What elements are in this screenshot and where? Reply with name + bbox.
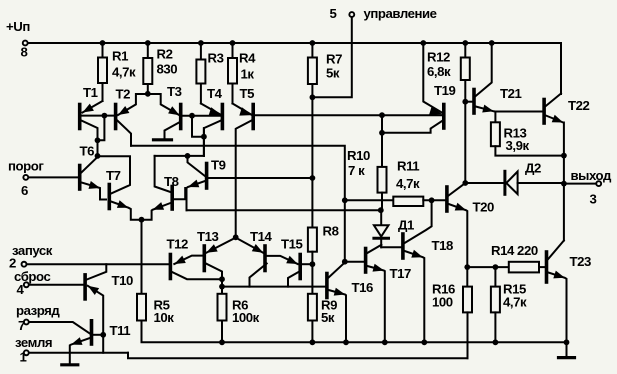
resistor R5: [137, 294, 146, 321]
label T17: [390, 266, 411, 281]
T5 collector: [236, 121, 252, 238]
svg-text:3: 3: [590, 191, 597, 206]
label R9 value 5k: [321, 310, 335, 325]
node T4 collector junction: [201, 134, 207, 140]
svg-text:T23: T23: [570, 254, 591, 269]
transistor T23: [545, 252, 549, 282]
transistor T21: [472, 90, 476, 114]
T8 collector: [155, 156, 171, 192]
T11 emitter: [70, 337, 90, 365]
svg-text:R3: R3: [208, 51, 224, 66]
node T11 collector junction: [100, 332, 106, 338]
wire R9 to rail: [311, 321, 313, 343]
node R2-emitters junction: [145, 91, 151, 97]
label R12: [427, 50, 450, 65]
node T21 base junction: [462, 99, 468, 105]
wire R13 top: [494, 112, 496, 123]
resistor R9: [308, 294, 317, 321]
node T20 collector junction: [462, 180, 468, 186]
label R16: [432, 282, 455, 297]
transistor T10: [83, 275, 87, 299]
label R1: [112, 49, 128, 64]
label T1: [83, 85, 98, 100]
wire pin4 to T10 base: [29, 284, 83, 286]
label R13 value 3,9k: [506, 138, 530, 153]
transistor T2: [114, 105, 118, 129]
node pin5-divider junction: [310, 94, 316, 100]
wire B: [155, 155, 204, 157]
svg-text:+Uп: +Uп: [6, 19, 30, 34]
T20 emitter: [449, 203, 468, 287]
T16 base wire: [222, 286, 325, 288]
label pin 6: [21, 183, 28, 198]
label R2: [157, 47, 173, 62]
transistor T20: [445, 187, 449, 211]
wire R1 to T1 emitter: [102, 83, 104, 101]
label D2: [525, 161, 541, 176]
junction R4-rail: [230, 40, 236, 46]
label R1 value 4,7k: [112, 65, 136, 80]
wire R4 to T5 emitter: [232, 84, 234, 104]
T18 emitter: [405, 250, 425, 342]
label T15: [281, 236, 302, 251]
T4 collector: [204, 121, 221, 156]
wire A threshold comparator output: [131, 146, 345, 201]
T14 collector: [250, 264, 267, 287]
label R10: [347, 148, 370, 163]
svg-text:6,8к: 6,8к: [427, 64, 451, 79]
wire R3 to T4 emitter: [200, 84, 202, 104]
node T7/T8 emitter junction: [139, 217, 145, 223]
transistor T3: [179, 105, 183, 129]
label T6: [80, 143, 95, 158]
transistor T22: [542, 100, 546, 124]
svg-text:T5: T5: [240, 86, 255, 101]
T2 collector: [117, 121, 131, 146]
junction T19 emitter-rail: [420, 40, 426, 46]
transistor T15: [298, 255, 302, 279]
resistor R14: [509, 262, 545, 273]
junction R7-rail: [310, 40, 316, 46]
svg-text:земля: земля: [15, 335, 52, 350]
ground chassis T11: [62, 363, 78, 366]
node D1 anode junction: [378, 207, 384, 213]
node R15 top junction: [493, 264, 499, 270]
svg-text:выход: выход: [571, 168, 612, 183]
T6 emitter: [81, 181, 106, 200]
T23 collector: [548, 241, 564, 260]
resistor R4: [228, 43, 237, 84]
label pin 7: [18, 318, 25, 333]
wire D1 anode: [380, 210, 382, 225]
label T7: [106, 168, 121, 183]
svg-text:T19: T19: [434, 83, 455, 98]
T12 emitter: [174, 256, 202, 264]
wire T1-T2 base: [81, 115, 114, 117]
svg-text:7: 7: [18, 318, 25, 333]
svg-text:R4: R4: [239, 51, 256, 66]
node R14 wire junction: [464, 264, 470, 270]
svg-text:T20: T20: [473, 200, 494, 215]
svg-text:T21: T21: [500, 86, 521, 101]
node R11 left junction: [342, 197, 348, 203]
wire T20 collector to D2: [465, 182, 504, 184]
svg-text:T7: T7: [106, 168, 121, 183]
wire pin5 to divider: [312, 17, 351, 97]
wire R10 bottom: [381, 193, 383, 211]
T9 emitter: [187, 180, 205, 211]
svg-text:T10: T10: [112, 273, 133, 288]
svg-text:R2: R2: [157, 47, 173, 62]
T7 collector: [98, 156, 131, 193]
svg-text:T13: T13: [197, 229, 218, 244]
T12 collector: [172, 272, 222, 279]
wire R12 to T20 collector: [464, 80, 466, 183]
svg-text:5: 5: [330, 6, 337, 21]
T7 emitter: [111, 200, 142, 220]
label R16 value 100: [432, 295, 453, 310]
label T18: [432, 238, 453, 253]
svg-text:1: 1: [20, 350, 27, 365]
label R5: [154, 298, 170, 313]
label R2 value 830: [157, 62, 178, 77]
svg-text:4,7к: 4,7к: [112, 65, 136, 80]
wire R15 bottom: [494, 312, 496, 342]
node T18 emitter rail junction: [421, 339, 427, 345]
wire R2 bottom: [147, 84, 149, 94]
label ground: [15, 335, 52, 350]
wire R6 bottom: [221, 321, 223, 343]
T16 collector: [329, 263, 345, 278]
svg-text:T11: T11: [110, 323, 131, 338]
label control: [364, 6, 437, 21]
pin 3 terminal: [596, 181, 601, 186]
node R9 rail junction: [310, 339, 316, 345]
junction R2-rail: [145, 40, 151, 46]
svg-text:100к: 100к: [232, 310, 260, 325]
label R3: [208, 51, 224, 66]
T17 collector: [367, 245, 381, 253]
label pin 5: [330, 6, 337, 21]
svg-text:8: 8: [21, 45, 28, 60]
transistor T18: [401, 234, 405, 258]
junction R12-rail: [462, 40, 468, 46]
wire pin7 to T11 base: [29, 322, 90, 334]
T8 emitter: [142, 202, 171, 220]
label discharge: [16, 303, 60, 318]
svg-text:R14 220: R14 220: [491, 243, 538, 258]
T20 collector: [449, 183, 466, 196]
label T8: [164, 174, 179, 189]
transistor T12: [169, 255, 173, 279]
label pin 1: [20, 350, 27, 365]
T3 emitter arrow: [168, 106, 179, 115]
node R10 top junction: [379, 112, 385, 118]
label R8: [323, 224, 339, 239]
pin 8 terminal: [23, 41, 28, 46]
label T2: [116, 87, 131, 102]
svg-text:T2: T2: [116, 87, 131, 102]
resistor R16: [463, 287, 472, 313]
label T22: [568, 98, 589, 113]
node T9 base junction: [310, 175, 316, 181]
wire node A1 down: [97, 140, 99, 156]
node T1/T2 base junction: [102, 113, 108, 119]
svg-text:4,7к: 4,7к: [503, 295, 527, 310]
svg-text:R8: R8: [323, 224, 339, 239]
svg-text:T18: T18: [432, 238, 453, 253]
wire R14 chain: [467, 266, 509, 268]
node A1: [95, 137, 101, 143]
transistor T6: [78, 166, 82, 190]
svg-text:T1: T1: [83, 85, 98, 100]
svg-text:10к: 10к: [154, 310, 175, 325]
wire pin1 ground: [29, 352, 128, 354]
resistor R8: [308, 228, 317, 252]
wire T7/T8 emitters to R5: [141, 220, 143, 294]
svg-text:T12: T12: [167, 236, 188, 251]
node T23 emitter rail junction: [564, 339, 570, 345]
T10 emitter: [88, 286, 103, 353]
T1 emitter: [83, 101, 103, 113]
resistor R15: [491, 287, 500, 313]
T3 emitter wire: [148, 94, 180, 115]
svg-text:R12: R12: [427, 50, 450, 65]
T5 emitter: [233, 104, 253, 116]
label output: [571, 168, 612, 183]
T13 collector: [206, 264, 222, 280]
T17 emitter: [367, 264, 385, 343]
T10 collector: [87, 264, 107, 279]
label R13: [504, 126, 527, 141]
wire R7 to R8: [311, 84, 313, 228]
svg-text:T22: T22: [568, 98, 589, 113]
svg-text:5к: 5к: [326, 66, 340, 81]
svg-text:T6: T6: [80, 143, 95, 158]
svg-text:управление: управление: [364, 6, 437, 21]
svg-text:T8: T8: [164, 174, 179, 189]
T19 collector: [382, 121, 442, 133]
svg-text:разряд: разряд: [16, 303, 60, 318]
label T11: [110, 323, 131, 338]
label T9: [211, 157, 226, 172]
T22 emitter: [546, 115, 563, 123]
label T12: [167, 236, 188, 251]
svg-text:T4: T4: [207, 86, 223, 101]
T8 base link: [174, 188, 185, 199]
node current source junction: [233, 234, 239, 240]
wire R16 bottom: [467, 312, 469, 358]
label threshold: [8, 159, 44, 174]
svg-text:T3: T3: [167, 84, 182, 99]
transistor T14: [263, 246, 267, 271]
label R11 value 4,7k: [396, 176, 420, 191]
wire T3-T4 base: [183, 115, 221, 117]
resistor R12: [461, 43, 470, 80]
transistor T19: [442, 105, 446, 129]
ground chassis output: [559, 356, 575, 359]
pin 7 terminal: [24, 320, 29, 325]
node A2: [95, 153, 101, 159]
label T20: [473, 200, 494, 215]
junction R3-rail: [198, 40, 204, 46]
transistor T9: [205, 164, 209, 189]
resistor R1: [98, 43, 107, 83]
node output junction: [561, 181, 567, 187]
diode D1: [374, 225, 389, 247]
wire pin6 to T6 base: [29, 176, 79, 178]
label T4: [207, 86, 223, 101]
pin 2 terminal: [22, 262, 27, 267]
wire base mirror link: [192, 116, 204, 137]
T18 collector: [405, 200, 432, 243]
node T17 emitter rail junction: [382, 339, 388, 345]
junction T21 collector-rail: [489, 40, 495, 46]
svg-text:R10: R10: [347, 148, 370, 163]
node T16 emitter rail junction: [343, 339, 349, 345]
wire control reference line: [255, 114, 442, 116]
T15 collector: [288, 272, 299, 287]
svg-text:3,9к: 3,9к: [506, 138, 530, 153]
label R12 value 6,8k: [427, 64, 451, 79]
resistor R11: [345, 197, 445, 206]
pin 4 terminal: [24, 282, 29, 287]
label R14 220: [491, 243, 538, 258]
label R10 value 7k: [348, 163, 365, 178]
wire R8 to R9: [311, 252, 313, 294]
label T19: [434, 83, 455, 98]
resistor R6: [218, 294, 227, 321]
T15 emitter: [267, 256, 298, 264]
node T15 base junction: [310, 261, 316, 267]
node D16: [342, 259, 348, 265]
resistor R2: [143, 43, 152, 84]
label T3: [167, 84, 182, 99]
svg-text:6: 6: [21, 183, 28, 198]
label pin 8: [21, 45, 28, 60]
wire T12/13 to R6: [221, 279, 223, 294]
svg-text:Д1: Д1: [398, 218, 414, 233]
svg-text:830: 830: [157, 62, 178, 77]
wire T22 emitter down: [563, 123, 565, 241]
node T19 collector junction: [379, 130, 385, 136]
wire A down to D16: [344, 200, 346, 261]
label D1: [398, 218, 414, 233]
transistor T16: [325, 274, 329, 298]
svg-text:T16: T16: [352, 280, 373, 295]
transistor T7: [108, 185, 112, 209]
resistor R13: [491, 122, 500, 146]
node T12/T13 collector junction: [219, 276, 225, 282]
T23 emitter: [548, 271, 566, 358]
transistor T1: [78, 105, 82, 129]
node R6 top junction: [219, 284, 225, 290]
ground T3: [154, 138, 172, 141]
node R6 rail junction: [219, 339, 225, 345]
svg-text:7 к: 7 к: [348, 163, 365, 178]
svg-text:Д2: Д2: [525, 161, 541, 176]
T19 base arrow: [429, 106, 442, 114]
wire C comparator node: [187, 209, 381, 211]
resistor R3: [196, 43, 205, 84]
T6 collector: [81, 157, 97, 173]
label T13: [197, 229, 218, 244]
node T9 collector junction: [185, 153, 191, 159]
wire R10 top: [381, 115, 383, 167]
label R6 value 100k: [232, 310, 260, 325]
pin 6 terminal: [23, 175, 28, 180]
pin 5 terminal: [349, 12, 354, 17]
svg-text:1к: 1к: [241, 67, 255, 82]
wire pin2 to T12 base: [27, 263, 169, 265]
T3 collector: [165, 123, 180, 138]
svg-text:запуск: запуск: [12, 243, 53, 258]
svg-text:100: 100: [432, 295, 453, 310]
label T23: [570, 254, 591, 269]
label R11: [397, 159, 419, 174]
svg-text:T9: T9: [211, 157, 226, 172]
wire R13 bottom: [495, 146, 564, 155]
node R15 rail junction: [493, 339, 499, 345]
T2 emitter: [118, 94, 148, 115]
svg-text:5к: 5к: [321, 310, 335, 325]
T19 emitter: [423, 43, 441, 112]
svg-text:R11: R11: [397, 159, 419, 174]
transistor T4: [221, 105, 225, 129]
wire ground jog: [128, 353, 468, 358]
wire T4 collector chain: [203, 128, 205, 156]
label R6: [232, 298, 248, 313]
transistor T8: [170, 187, 174, 210]
wire R5 to rail: [142, 321, 567, 343]
label +Up: [6, 19, 30, 34]
label R5 value 10k: [154, 310, 175, 325]
node T20 base junction: [429, 197, 435, 203]
label T14: [250, 229, 272, 244]
svg-text:4: 4: [17, 282, 25, 297]
T21 emitter: [476, 105, 543, 113]
svg-text:T14: T14: [250, 229, 272, 244]
label R7: [326, 52, 342, 67]
label R7 value 5k: [326, 66, 340, 81]
label T10: [112, 273, 133, 288]
wire R15 top: [494, 267, 496, 287]
T21 base: [465, 101, 472, 103]
svg-text:T17: T17: [390, 266, 411, 281]
label R15: [503, 282, 526, 297]
label pin 2: [9, 256, 16, 271]
label R4: [239, 51, 256, 66]
transistor T11: [90, 321, 94, 344]
svg-text:4,7к: 4,7к: [396, 176, 420, 191]
T18 base: [381, 246, 401, 248]
label R4 value 1k: [241, 67, 255, 82]
label R9: [321, 298, 337, 313]
diode D2: [505, 171, 564, 194]
label pin 4: [17, 282, 25, 297]
label T5: [240, 86, 255, 101]
T14 emitter: [236, 238, 264, 253]
transistor T17: [364, 249, 368, 273]
label reset: [14, 269, 50, 284]
T4 emitter: [201, 104, 222, 116]
svg-text:R1: R1: [112, 49, 128, 64]
node T3/T4 base junction: [189, 113, 195, 119]
resistor R7: [308, 43, 317, 84]
svg-text:R7: R7: [326, 52, 342, 67]
svg-text:T15: T15: [281, 236, 302, 251]
label T16: [352, 280, 373, 295]
